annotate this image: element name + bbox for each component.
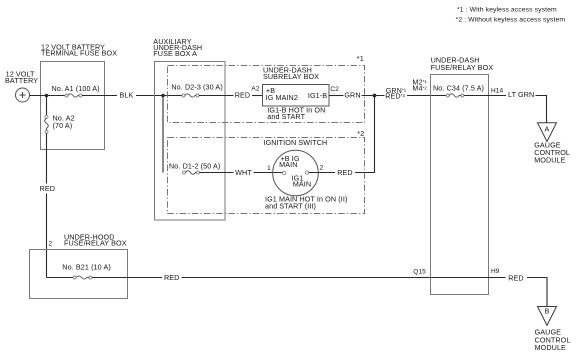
auxiliary under-dash fuse box A label [153, 37, 202, 58]
12 volt battery terminal fuse box label [41, 43, 117, 58]
svg-text:WHT: WHT [235, 168, 252, 177]
svg-text:*1 : With keyless access syste: *1 : With keyless access system [457, 6, 557, 13]
node junction ignition feed [373, 94, 377, 98]
wire C2 to GRN [329, 95, 344, 97]
under-dash fuse relay box label [431, 56, 494, 72]
svg-text:MAIN: MAIN [293, 180, 311, 189]
wire RED down to module B [527, 278, 547, 307]
12 volt battery terminal fuse box [41, 62, 105, 150]
wire A2 down to RED [46, 133, 48, 183]
svg-text:RED: RED [235, 90, 250, 99]
wire RED to under-hood box [46, 194, 48, 278]
svg-text:IG MAIN2: IG MAIN2 [266, 93, 298, 102]
wire branch down to D1-2 [162, 96, 164, 173]
node junction at D2-3 input [161, 94, 165, 98]
svg-text:MAIN: MAIN [279, 160, 297, 169]
svg-text:GRN: GRN [344, 90, 360, 99]
svg-text:SUBRELAY BOX: SUBRELAY BOX [263, 72, 319, 81]
fuse A2 label [53, 114, 75, 131]
svg-text:C2: C2 [330, 86, 339, 93]
fuse C34 [446, 94, 464, 97]
wire ignition to RED [309, 172, 335, 174]
svg-text:FUSE/RELAY BOX: FUSE/RELAY BOX [64, 239, 127, 248]
svg-text:A2: A2 [251, 86, 259, 93]
note IG1 MAIN HOT in ON and START [265, 195, 347, 211]
svg-text:IGNITION SWITCH: IGNITION SWITCH [264, 138, 328, 147]
svg-text:IG1-B: IG1-B [308, 91, 327, 100]
svg-text:TERMINAL FUSE BOX: TERMINAL FUSE BOX [41, 49, 117, 58]
wire A1 to BLK [82, 95, 117, 97]
svg-text:and START: and START [267, 112, 305, 121]
note IG1-B HOT in ON and START [267, 106, 325, 121]
gauge control module B triangle [538, 307, 557, 326]
svg-text:BATTERY: BATTERY [5, 76, 38, 85]
label GRN*1 RED*2 [385, 86, 407, 101]
svg-text:*2 : Without keyless access sy: *2 : Without keyless access system [456, 16, 566, 23]
under-dash fuse relay box [431, 75, 489, 295]
wire battery to fuse A1 [30, 95, 66, 97]
dash-dot group *1 keyless [168, 66, 365, 123]
gauge control module A label [534, 140, 570, 164]
ignition switch circle [273, 150, 319, 196]
pin M2 M4 [412, 77, 427, 92]
ignition IG1 MAIN label [292, 174, 312, 189]
svg-text:FUSE BOX A: FUSE BOX A [153, 49, 197, 58]
ignition +B IG MAIN label [279, 154, 300, 169]
wire B21 to RED [92, 277, 162, 279]
svg-text:No. B21 (10 A): No. B21 (10 A) [62, 263, 111, 272]
svg-text:*1: *1 [357, 54, 364, 63]
under-hood fuse relay box label [64, 233, 127, 248]
wire A2 branch down [46, 96, 48, 116]
fuse D1-2 [183, 171, 200, 175]
wire RED up to junction [355, 96, 375, 173]
svg-text:MODULE: MODULE [535, 343, 566, 352]
svg-text:*2: *2 [357, 129, 364, 138]
wire to under-dash fuse relay box [407, 95, 446, 97]
wire C34 to LT GRN [464, 95, 506, 97]
svg-text:No. C34 (7.5 A): No. C34 (7.5 A) [433, 83, 484, 92]
ignition contact left [283, 171, 286, 174]
svg-text:RED: RED [40, 184, 55, 193]
svg-text:MODULE: MODULE [534, 155, 565, 164]
under-hood fuse relay box [30, 250, 128, 299]
gauge control module B label [535, 328, 571, 352]
svg-text:2: 2 [320, 165, 324, 172]
svg-text:1: 1 [267, 165, 271, 172]
svg-text:FUSE/RELAY BOX: FUSE/RELAY BOX [431, 63, 494, 72]
dash-dot group *2 without keyless [168, 138, 365, 214]
svg-text:No. D2-3 (30 A): No. D2-3 (30 A) [171, 82, 222, 91]
svg-text:RED: RED [337, 168, 352, 177]
gauge control module A triangle [538, 123, 557, 142]
svg-text:BLK: BLK [120, 90, 134, 99]
wire D2-3 to RED [199, 95, 234, 97]
wire into B21 [47, 277, 74, 279]
under-dash subrelay box label [263, 66, 319, 82]
svg-text:RED: RED [164, 273, 179, 282]
wire BLK to aux box [136, 95, 182, 97]
svg-text:and START (III): and START (III) [265, 202, 316, 211]
relay IG MAIN2 box [263, 85, 330, 107]
wire WHT to ignition switch [254, 172, 283, 174]
wire RED to under-dash box bottom [182, 277, 506, 279]
node junction at A1 input [45, 94, 49, 98]
battery 12V label [5, 70, 38, 86]
svg-text:B: B [545, 307, 550, 316]
ignition contact right [305, 171, 308, 174]
wire LT GRN down to module A [536, 96, 547, 123]
svg-text:2: 2 [49, 241, 53, 248]
wire RED to subrelay [252, 95, 262, 97]
svg-text:No. A1 (100 A): No. A1 (100 A) [52, 84, 100, 93]
svg-text:RED: RED [508, 273, 523, 282]
wire GRN to junction [362, 95, 385, 97]
svg-text:H14: H14 [491, 88, 504, 95]
auxiliary under-dash fuse box A [155, 62, 226, 221]
svg-text:No. D1-2 (50 A): No. D1-2 (50 A) [169, 161, 220, 170]
svg-text:H9: H9 [491, 268, 500, 275]
svg-text:LT GRN: LT GRN [508, 90, 534, 99]
fuse B21 [73, 276, 92, 279]
svg-text:A: A [545, 125, 550, 134]
svg-text:Q15: Q15 [413, 268, 426, 275]
fuse A1 [65, 94, 82, 97]
battery symbol [16, 88, 30, 102]
fuse A2 [45, 115, 49, 133]
svg-text:(70 A): (70 A) [53, 121, 73, 130]
fuse D2-3 [182, 94, 199, 97]
wire D1-2 to WHT [200, 172, 234, 174]
